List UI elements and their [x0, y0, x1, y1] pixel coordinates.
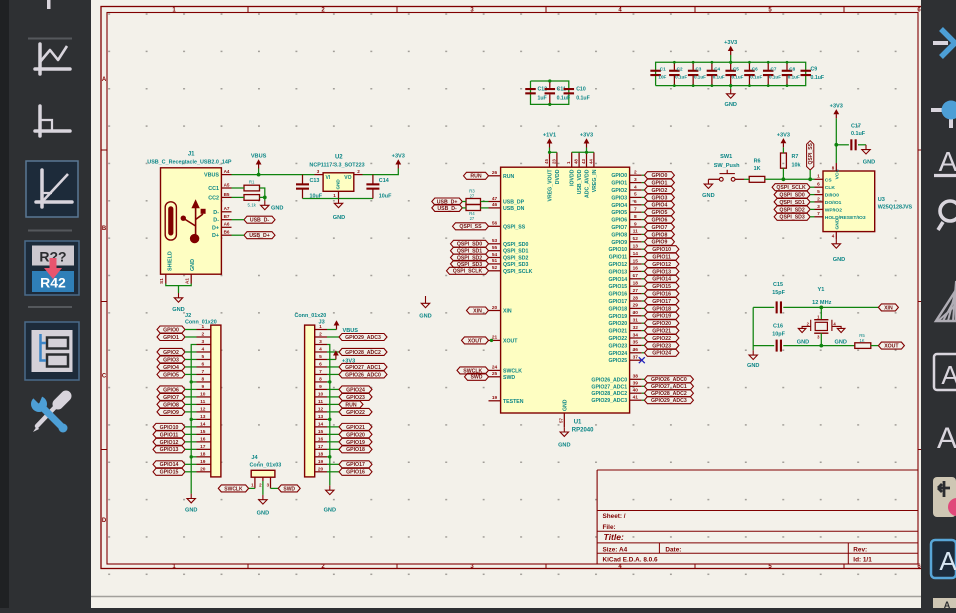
svg-text:Id: 1/1: Id: 1/1 [853, 556, 872, 563]
pin GPIO25 [608, 355, 641, 365]
junction cap bank 3v3 [729, 61, 732, 64]
wire r5 to xout [871, 345, 879, 347]
svg-text:GPIO21: GPIO21 [346, 425, 365, 431]
svg-text:VI: VI [326, 175, 331, 181]
pin GPIO4 [611, 199, 641, 209]
rtoolbar icon junction [931, 101, 956, 129]
junction cap bottom [692, 84, 695, 87]
ground CC pulldown [261, 201, 284, 212]
svg-text:0.1uF: 0.1uF [675, 74, 687, 79]
toolbar top partial icon [47, 0, 51, 9]
svg-text:3: 3 [317, 169, 320, 174]
svg-text:45: 45 [544, 159, 549, 164]
svg-text:10: 10 [200, 392, 206, 398]
svg-text:24: 24 [492, 365, 498, 371]
svg-text:GPIO25: GPIO25 [608, 358, 627, 364]
junction cap top [786, 61, 789, 64]
svg-text:GPIO11: GPIO11 [160, 432, 179, 438]
svg-text:18: 18 [200, 451, 206, 457]
svg-text:A: A [944, 600, 951, 608]
svg-text:C1: C1 [660, 67, 666, 72]
pin GPIO9 [611, 236, 641, 246]
junction crystal top [819, 306, 823, 310]
ground J1 [172, 293, 184, 313]
ground J2 [185, 494, 197, 514]
svg-text:9: 9 [201, 384, 204, 390]
pin GPIO3 [611, 192, 641, 202]
svg-text:15: 15 [633, 258, 639, 264]
svg-text:GND: GND [833, 257, 845, 263]
svg-text:File:: File: [603, 524, 616, 531]
svg-text:+1V1: +1V1 [543, 133, 556, 139]
svg-text:19: 19 [492, 395, 498, 401]
svg-text:16: 16 [633, 266, 639, 272]
svg-text:CS: CS [825, 177, 833, 183]
svg-text:C: C [102, 374, 107, 380]
svg-text:HOLD/RESET/IO3: HOLD/RESET/IO3 [825, 215, 866, 221]
global label GPIO9 [642, 238, 675, 245]
ground c17 [862, 145, 875, 166]
svg-text:9: 9 [634, 221, 637, 227]
junction C11 bottom [548, 103, 551, 106]
junction dvdd rail [548, 151, 551, 154]
svg-text:GPIO27_ADC1: GPIO27_ADC1 [591, 384, 627, 390]
ground floating [419, 296, 431, 320]
svg-text:GND: GND [797, 339, 809, 345]
svg-text:A: A [941, 360, 956, 390]
svg-text:GPIO7: GPIO7 [611, 225, 627, 231]
svg-text:SWD: SWD [283, 486, 295, 492]
svg-text:GPIO8: GPIO8 [611, 232, 627, 238]
svg-text:GPIO10: GPIO10 [608, 247, 627, 253]
wire usbdn [462, 207, 466, 209]
svg-text:37: 37 [633, 355, 639, 361]
svg-text:R1: R1 [249, 180, 255, 185]
U1 bottom pin GND [559, 399, 569, 427]
svg-text:16: 16 [200, 436, 206, 442]
wire xout line left [753, 345, 774, 347]
svg-text:GPIO17: GPIO17 [608, 299, 627, 305]
junction gnd bus [190, 380, 193, 383]
svg-text:GPIO5: GPIO5 [611, 210, 627, 216]
wire gnd row j3 [327, 418, 330, 420]
svg-text:J2: J2 [185, 313, 191, 319]
global label GPIO12 j2 [153, 438, 197, 445]
rtoolbar icon sheet A selected [931, 540, 956, 578]
svg-text:C17: C17 [851, 124, 861, 130]
svg-text:41: 41 [633, 395, 639, 401]
global label GPIO23 [642, 342, 679, 349]
global label GPIO18 j3 [327, 446, 372, 453]
junction cap top [729, 61, 732, 64]
pin GPIO7 [611, 221, 641, 231]
svg-text:27: 27 [470, 216, 475, 221]
svg-text:19: 19 [200, 459, 206, 465]
wire J3 gnd bus [327, 344, 330, 485]
wire D+ [232, 234, 245, 236]
global label GPIO26_ADC0 j3 [327, 371, 387, 378]
svg-text:GND: GND [257, 510, 269, 516]
wire gnd row [191, 456, 196, 458]
rtoolbar icon sheet [936, 281, 956, 321]
svg-text:QSPI_SCLK: QSPI_SCLK [503, 269, 533, 275]
svg-text:0.1uF: 0.1uF [731, 74, 743, 79]
svg-text:5: 5 [319, 354, 322, 360]
svg-text:U3: U3 [878, 197, 885, 203]
svg-text:GPIO14: GPIO14 [652, 277, 671, 283]
global label GPIO12 [642, 261, 679, 268]
svg-text:2: 2 [634, 170, 637, 176]
svg-text:+3V3: +3V3 [724, 40, 737, 46]
svg-text:GPIO28_ADC2: GPIO28_ADC2 [345, 350, 381, 356]
svg-text:A7: A7 [224, 206, 230, 211]
svg-text:18: 18 [633, 281, 639, 287]
switch SW1 [708, 154, 744, 181]
svg-text:GND: GND [834, 339, 846, 345]
pin GPIO21 [608, 325, 641, 335]
U3 vcc pin [835, 163, 837, 171]
global label SWCLK u1 [457, 367, 489, 374]
junction u1 3v3 rail [585, 151, 588, 154]
rtoolbar icon global label [938, 201, 956, 230]
svg-text:WP/IO2: WP/IO2 [825, 207, 842, 213]
svg-text:+3V3: +3V3 [392, 154, 405, 160]
svg-text:0.1uF: 0.1uF [694, 74, 706, 79]
global label GPIO21 j3 [327, 423, 372, 430]
svg-text:GPIO27_ADC1: GPIO27_ADC1 [345, 365, 381, 371]
global label GPIO24 j3 [327, 386, 372, 393]
svg-text:4: 4 [201, 347, 204, 353]
global label GPIO2 [642, 187, 675, 194]
svg-text:GPIO10: GPIO10 [652, 247, 671, 253]
svg-text:7: 7 [634, 207, 637, 213]
svg-text:27: 27 [633, 288, 639, 294]
wire gnd row j3 [327, 456, 330, 458]
global label USB_D+ u1 [432, 198, 463, 205]
wire swclk j4 [249, 487, 255, 489]
global label GPIO16 [642, 290, 679, 297]
U1 left pins [489, 170, 533, 405]
svg-text:GPIO8: GPIO8 [651, 232, 667, 238]
svg-text:2: 2 [817, 196, 820, 202]
svg-text:15pF: 15pF [772, 290, 785, 296]
connector J3 [295, 313, 327, 477]
wire +3V3 rail u1 [572, 151, 594, 153]
svg-text:XOUT: XOUT [503, 338, 518, 344]
svg-text:R7: R7 [792, 154, 799, 160]
svg-text:D-: D- [213, 218, 219, 224]
power +3V3 u1 [580, 133, 593, 148]
junction C11 top [548, 79, 551, 82]
svg-text:RUN: RUN [345, 402, 356, 408]
toolbar icon corner [35, 106, 70, 136]
svg-text:GPIO1: GPIO1 [651, 181, 667, 187]
svg-text:1: 1 [333, 193, 336, 198]
wire xin line [753, 306, 774, 308]
capacitor C6 [744, 62, 755, 85]
svg-text:1K: 1K [859, 338, 864, 343]
wire r6 to u3 cs [765, 178, 815, 180]
svg-text:XIN: XIN [884, 305, 893, 311]
global label GPIO8 j2 [157, 401, 197, 408]
global label USB_D- [244, 216, 275, 223]
pin GPIO29_ADC3 [591, 395, 641, 405]
svg-text:GND: GND [185, 508, 197, 514]
svg-text:XIN: XIN [503, 309, 512, 315]
pin GPIO23 [608, 340, 641, 350]
global label GPIO14 [642, 275, 679, 282]
ground cap bank [724, 86, 736, 108]
global label GPIO4 [642, 201, 675, 208]
rtoolbar icon label [934, 146, 956, 177]
global label XIN u1 [467, 307, 489, 314]
global label GPIO18 [642, 305, 679, 312]
svg-text:GPIO2: GPIO2 [611, 188, 627, 194]
svg-text:A1: A1 [185, 278, 190, 284]
capacitor C14 bottom lead [372, 190, 374, 199]
svg-text:44: 44 [588, 159, 593, 164]
svg-text:12: 12 [318, 406, 324, 412]
wire R1 R2 to gnd [260, 188, 265, 197]
junction c17 [834, 143, 838, 147]
junction crystal bottom [819, 344, 823, 348]
svg-text:GPIO4: GPIO4 [651, 203, 667, 209]
svg-text:VO: VO [344, 175, 351, 181]
junction gnd bus [190, 455, 193, 458]
global label GPIO5 [642, 209, 675, 216]
junction cap bottom [711, 84, 714, 87]
pin GPIO5 [611, 207, 641, 217]
svg-text:GPIO18: GPIO18 [652, 306, 671, 312]
connector J2 [185, 313, 221, 477]
global label QSPI_SD0 u1 [451, 240, 489, 247]
power +3V3 r7 [777, 132, 790, 147]
toolbar icon annotate R42 [25, 241, 79, 295]
svg-text:1uF: 1uF [538, 95, 547, 101]
svg-text:GPIO1: GPIO1 [163, 335, 179, 341]
svg-text:R6: R6 [754, 158, 761, 164]
svg-text:51: 51 [492, 258, 498, 264]
right toolbar background [921, 0, 956, 608]
global label GPIO1 j2 [157, 333, 197, 340]
capacitor C7 [763, 62, 774, 85]
wire left cap rail [752, 307, 754, 350]
svg-text:ADC_AVDD: ADC_AVDD [585, 169, 591, 198]
global label GPIO14 j2 [153, 461, 197, 468]
global label GPIO4 j2 [157, 363, 197, 370]
resistor R7 [781, 153, 801, 169]
frame column ticks [247, 7, 249, 13]
pin GPIO19 [608, 310, 641, 320]
wire c17 left [836, 144, 849, 146]
svg-text:20: 20 [318, 466, 324, 472]
svg-text:GPIO24: GPIO24 [652, 351, 671, 357]
svg-text:GPIO2: GPIO2 [651, 188, 667, 194]
resistor R1 [244, 180, 260, 191]
svg-text:GND: GND [558, 443, 570, 449]
svg-text:GPIO23: GPIO23 [608, 343, 627, 349]
svg-text:12 MHz: 12 MHz [812, 300, 831, 306]
svg-text:GPIO22: GPIO22 [346, 410, 365, 416]
svg-text:TESTEN: TESTEN [503, 399, 524, 405]
svg-text:GPIO18: GPIO18 [346, 447, 365, 453]
connector J1 [147, 152, 232, 284]
svg-text:56: 56 [492, 221, 498, 227]
global label QSPI_SS vertical [807, 141, 815, 170]
svg-text:3: 3 [319, 339, 322, 345]
wire VBUS to U2 [232, 174, 315, 176]
cap bank labels [658, 67, 824, 81]
global label GPIO24 [642, 349, 679, 356]
svg-text:8: 8 [201, 377, 204, 383]
capacitor C3 [688, 62, 699, 85]
pin GPIO24 [608, 347, 641, 357]
global label RUN j3 [327, 401, 363, 408]
svg-text:GPIO21: GPIO21 [652, 329, 671, 335]
wire U2 out [363, 169, 399, 175]
svg-text:GPIO3: GPIO3 [163, 357, 179, 363]
svg-text:GPIO17: GPIO17 [346, 462, 365, 468]
svg-text:W25Q128JVS: W25Q128JVS [878, 205, 913, 211]
svg-text:GPIO15: GPIO15 [652, 284, 671, 290]
global label GPIO27_ADC1 [642, 383, 694, 390]
junction cap top [673, 61, 676, 64]
svg-text:GPIO14: GPIO14 [608, 277, 627, 283]
svg-text:QSPI_SD2: QSPI_SD2 [779, 207, 804, 213]
global label GPIO15 j2 [153, 468, 197, 475]
wire usbdp [462, 201, 466, 203]
junction gnd bus j3 [328, 380, 331, 383]
power +3V3 U2 out [392, 154, 405, 169]
capacitor C14 [366, 178, 392, 200]
svg-text:B6: B6 [224, 230, 230, 235]
svg-text:USB_D+: USB_D+ [249, 233, 270, 239]
svg-text:54: 54 [492, 252, 498, 258]
svg-text:7: 7 [201, 369, 204, 375]
connector J4 [250, 455, 282, 488]
capacitor C11 [545, 81, 571, 104]
svg-text:QSPI_SS: QSPI_SS [808, 142, 814, 164]
svg-text:40: 40 [633, 388, 639, 394]
pin GPIO13 [608, 266, 641, 276]
svg-text:GND: GND [834, 218, 840, 229]
svg-text:13: 13 [200, 414, 206, 420]
svg-text:GPIO7: GPIO7 [163, 395, 179, 401]
svg-text:14: 14 [633, 251, 639, 257]
svg-text:C15: C15 [773, 282, 783, 288]
global label XOUT u1 [462, 337, 489, 344]
global label GPIO6 [642, 216, 675, 223]
capacitor C10 [564, 86, 590, 101]
svg-text:11: 11 [200, 399, 205, 405]
svg-text:9: 9 [319, 384, 322, 390]
global label GPIO23 j3 [327, 393, 372, 400]
svg-text:GND: GND [190, 259, 196, 271]
ground U2 [333, 199, 345, 222]
svg-text:17: 17 [633, 273, 639, 279]
svg-text:GND: GND [333, 215, 345, 221]
wire gnd row [191, 381, 196, 383]
svg-text:CC2: CC2 [208, 195, 219, 201]
svg-text:QSPI_SS: QSPI_SS [503, 224, 526, 230]
svg-text:0.1uF: 0.1uF [750, 74, 762, 79]
svg-text:GPIO24: GPIO24 [346, 387, 365, 393]
pin GPIO2 [611, 184, 641, 194]
svg-text:GND: GND [863, 160, 875, 166]
svg-text:38: 38 [633, 374, 639, 380]
svg-text:CC1: CC1 [208, 186, 219, 192]
svg-text:GPIO16: GPIO16 [346, 470, 365, 476]
svg-text:GPIO11: GPIO11 [609, 255, 628, 261]
wire CC2 to R2 [232, 196, 245, 198]
svg-text:1: 1 [201, 324, 204, 330]
capacitor C2 [669, 62, 680, 85]
svg-text:Date:: Date: [665, 547, 681, 554]
svg-text:A: A [937, 422, 956, 455]
svg-text:QSPI_SD0: QSPI_SD0 [779, 193, 804, 199]
svg-text:GPIO20: GPIO20 [608, 321, 627, 327]
svg-text:GPIO15: GPIO15 [160, 470, 179, 476]
svg-text:36: 36 [633, 347, 639, 353]
junction gnd bus j3 [328, 455, 331, 458]
global label GPIO28_ADC2 j3 [327, 348, 387, 355]
svg-text:VBUS: VBUS [251, 154, 267, 160]
junction cap top [711, 61, 714, 64]
svg-text:J4: J4 [251, 455, 258, 461]
svg-text:GPIO13: GPIO13 [160, 447, 179, 453]
wire D- [232, 219, 245, 221]
wire c15 to xin [783, 306, 878, 308]
wire r7 bottom [782, 168, 784, 179]
svg-text:34: 34 [633, 332, 639, 338]
global label GPIO0 j2 [157, 326, 197, 333]
capacitor C8 [782, 62, 793, 85]
svg-text:GPIO17: GPIO17 [652, 299, 671, 305]
svg-text:13: 13 [633, 244, 639, 250]
wire sw1 r6 [744, 178, 749, 180]
svg-text:GPIO11: GPIO11 [652, 255, 671, 261]
rtoolbar icon symbol [933, 477, 956, 517]
svg-text:13: 13 [318, 414, 324, 420]
svg-text:GPIO12: GPIO12 [652, 262, 671, 268]
pin GPIO20 [608, 318, 641, 328]
global label GPIO13 j2 [153, 446, 197, 453]
global label GPIO2 j2 [157, 348, 197, 355]
toolbar icon diagonal selected [26, 161, 78, 217]
svg-text:GPIO0: GPIO0 [611, 173, 627, 179]
svg-text:3: 3 [201, 339, 204, 345]
svg-text:0.1uF: 0.1uF [811, 75, 825, 81]
power +1V1 [543, 133, 556, 148]
pin GPIO12 [608, 258, 641, 268]
svg-text:USB_VDD: USB_VDD [577, 169, 583, 194]
svg-text:11: 11 [318, 399, 323, 405]
svg-text:+3V3: +3V3 [342, 358, 355, 364]
global label GPIO26_ADC0 [642, 376, 694, 383]
svg-text:SW1: SW1 [720, 154, 732, 160]
svg-text:10pF: 10pF [772, 332, 785, 338]
svg-text:GPIO19: GPIO19 [346, 440, 365, 446]
global label GPIO5 j2 [157, 371, 197, 378]
pin GPIO28_ADC2 [591, 388, 641, 398]
global label GPIO3 [642, 194, 675, 201]
flash U3 [823, 171, 913, 232]
svg-text:Rev:: Rev: [853, 547, 867, 554]
global label XIN [878, 304, 898, 311]
wire +1V1 rail [550, 151, 557, 153]
capacitor C12 [525, 86, 547, 101]
svg-text:SWD: SWD [470, 375, 482, 381]
